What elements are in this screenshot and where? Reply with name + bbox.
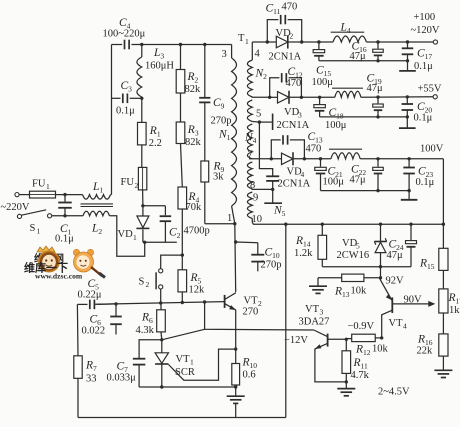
wire: 92V node drop: [380, 267, 382, 278]
svg-text:2~4.5V: 2~4.5V: [378, 387, 410, 398]
resistor R6 4.3k: [136, 303, 166, 340]
svg-text:47μ: 47μ: [367, 83, 384, 94]
node R5 bottom: [181, 301, 184, 304]
node VD2 cathode: [300, 40, 303, 43]
capacitor C2 4700p: [143, 206, 210, 243]
svg-text:270: 270: [243, 307, 259, 318]
resistor R13 10k: [318, 274, 381, 299]
svg-text:S: S: [30, 223, 36, 234]
capacitor C5 0.22u: [77, 278, 116, 309]
svg-text:10k: 10k: [351, 286, 368, 297]
wire FU1 to L1: [56, 194, 83, 196]
svg-text:22k: 22k: [417, 346, 434, 357]
transformer secondary winding column (pins 4,5,7,8,9,10): [247, 42, 259, 223]
wire: bottom return rail: [78, 417, 286, 419]
diode VD2 2CN1A: [267, 28, 301, 63]
wire VT2 emitter down: [235, 310, 237, 364]
node: pin1 junction: [233, 222, 236, 225]
svg-text:82k: 82k: [185, 84, 202, 95]
inductor L3 160uH: [137, 45, 174, 99]
svg-text:VT: VT: [176, 354, 191, 365]
wire SCR cathode to R10 bottom: [162, 386, 236, 388]
switch S2: [139, 255, 183, 303]
svg-text:1: 1: [133, 233, 137, 242]
wire pin8 to junction: [252, 188, 273, 190]
svg-text:1: 1: [227, 213, 232, 224]
svg-text:47μ: 47μ: [387, 250, 404, 261]
wire: main return vertical x=285.8: [285, 224, 287, 417]
node C6: [114, 302, 117, 305]
svg-text:0.1μ: 0.1μ: [55, 234, 74, 245]
svg-text:2CN1A: 2CN1A: [277, 120, 310, 131]
inductor L1: [83, 181, 111, 199]
node VD4 anode: [270, 157, 273, 160]
svg-text:270p: 270p: [261, 260, 282, 271]
svg-text:FU: FU: [32, 179, 46, 190]
capacitor C20 0.1u: [402, 95, 433, 123]
svg-text:2: 2: [135, 181, 139, 190]
capacitor C12 470 bypass loop: [270, 66, 303, 97]
node VD4 cathode: [303, 157, 306, 160]
svg-text:270p: 270p: [211, 116, 232, 127]
transistor VT4: [380, 279, 436, 338]
wire: VT2 base rail: [95, 302, 225, 305]
diode VD1: [118, 206, 150, 243]
capacitor C15 100u: [312, 40, 334, 88]
fuse FU2: [121, 145, 147, 190]
svg-text:90V: 90V: [404, 295, 423, 306]
watermark logo dzsc: [24, 246, 105, 281]
svg-text:2: 2: [290, 32, 294, 41]
transistor VT3 3DA27: [299, 304, 347, 382]
svg-text:4: 4: [255, 49, 261, 60]
capacitor C1 0.1u: [55, 195, 74, 245]
terminal +55V: [418, 84, 442, 99]
wire S1 to L2: [52, 215, 83, 217]
transformer T1 label: [238, 33, 249, 46]
svg-text:1.2k: 1.2k: [294, 248, 313, 259]
svg-text:0.1μ: 0.1μ: [414, 113, 433, 124]
svg-text:VT: VT: [244, 296, 259, 307]
wire: R14/VD5/C24 bottom bus: [322, 266, 411, 268]
svg-text:2CW16: 2CW16: [337, 250, 370, 261]
capacitor C11 470 bypass loop: [266, 2, 302, 43]
wire: R4 bottom to S2/R5 node: [181, 209, 183, 255]
node VT3 base / R11: [345, 338, 348, 341]
wire: C3 branch y=98.3: [112, 97, 121, 99]
svg-text:92V: 92V: [386, 276, 405, 287]
wire L2 to VD1 bottom loop: [110, 216, 145, 256]
transformer primary winding N1 (pins 3-1): [232, 45, 237, 224]
svg-text:+55V: +55V: [418, 84, 442, 95]
capacitor C19 47u: [367, 73, 384, 117]
svg-text:160μH: 160μH: [145, 61, 174, 72]
wire pin7 to VD4 row y=158.8: [249, 158, 282, 160]
svg-text:+100: +100: [414, 12, 436, 23]
node SCR cathode: [160, 385, 163, 388]
wire tap5 down to C14: [259, 122, 272, 176]
diode VD4 2CN1A: [278, 152, 311, 189]
inductor L2: [83, 211, 109, 236]
fuse FU1: [19, 179, 55, 199]
node VT2 base drop: [203, 300, 206, 303]
node: VD1 cathode / C2 bottom: [143, 241, 146, 244]
node tap5: [258, 120, 261, 123]
capacitor C18 100u: [314, 96, 347, 131]
svg-text:4: 4: [403, 322, 407, 331]
wire: AC top rail y=44.5: [112, 44, 123, 46]
svg-text:82k: 82k: [185, 137, 202, 148]
wire: diagonal to SCR anode: [162, 329, 205, 340]
capacitor C7 0.033u: [107, 340, 162, 387]
svg-text:www.dzsc.com: www.dzsc.com: [35, 272, 83, 281]
capacitor C16 47u: [350, 40, 384, 62]
wire: R9 bottom to pin1: [204, 182, 206, 224]
svg-text:47μ: 47μ: [350, 175, 367, 186]
wire VD2 row after L4: [366, 41, 435, 43]
svg-text:10k: 10k: [372, 344, 389, 355]
switch S1: [22, 210, 52, 236]
resistor R5 12k: [178, 255, 205, 302]
wire L1 up: [111, 194, 112, 196]
ground at R13 left: [309, 278, 327, 294]
svg-text:3k: 3k: [213, 172, 224, 183]
svg-text:9: 9: [253, 193, 258, 204]
transistor VT2 270: [225, 293, 262, 318]
wire: secondary pin4 to VD2 row y=42: [252, 41, 267, 43]
svg-text:33: 33: [86, 374, 97, 385]
svg-text:3: 3: [298, 111, 302, 120]
svg-text:SCR: SCR: [175, 367, 195, 378]
svg-text:0.22μ: 0.22μ: [78, 290, 102, 301]
terminal AC top: [15, 193, 19, 197]
resistor R3 82k: [176, 93, 201, 148]
zener diode VD5 2CW16: [337, 223, 387, 267]
capacitor C21 100u: [315, 157, 345, 191]
svg-text:100V: 100V: [420, 144, 444, 155]
resistor R12 10k: [346, 334, 388, 357]
node: L3/C3/R1 junction: [140, 97, 143, 100]
node R15 top: [442, 223, 445, 226]
svg-text:2.2: 2.2: [149, 138, 162, 149]
node C10 tap: [234, 240, 237, 243]
wire: tap to VD3 row y=97: [252, 96, 270, 98]
svg-text:70k: 70k: [186, 202, 203, 213]
svg-text:470: 470: [306, 144, 322, 155]
svg-text:3: 3: [222, 49, 227, 60]
svg-text:0.1μ: 0.1μ: [116, 106, 135, 117]
svg-text:VT: VT: [389, 318, 404, 329]
svg-text:0.1μ: 0.1μ: [416, 177, 435, 188]
svg-text:4700p: 4700p: [184, 226, 210, 237]
svg-text:−12V: −12V: [284, 335, 308, 346]
node VD3 anode: [268, 96, 271, 99]
svg-text:~120V: ~120V: [411, 25, 440, 36]
node + ground stub row3: [376, 189, 417, 200]
node C1 top: [63, 193, 66, 196]
node S2/R5 top: [181, 253, 184, 256]
wire row3 after L6: [360, 158, 443, 160]
capacitor C23 0.1u: [403, 157, 434, 191]
svg-text:12k: 12k: [189, 285, 206, 296]
thyristor VT1 SCR: [155, 340, 236, 387]
node S2 bottom: [159, 301, 162, 304]
stub bar N5: [264, 189, 282, 203]
svg-text:−0.9V: −0.9V: [348, 321, 375, 332]
svg-text:3DA27: 3DA27: [299, 317, 330, 328]
node: VD1 anode top: [142, 190, 144, 206]
node pin8 wire junction: [271, 188, 274, 191]
svg-text:1k: 1k: [449, 305, 460, 316]
svg-text:100μ: 100μ: [312, 77, 334, 88]
node gate tap: [234, 347, 237, 350]
node VD3 cathode: [300, 96, 303, 99]
resistor R11 4.7k: [342, 339, 370, 383]
capacitor C9 270p: [199, 43, 231, 127]
svg-text:T: T: [238, 33, 245, 44]
svg-text:1: 1: [46, 182, 50, 191]
wire: 100V rail right corner down: [442, 159, 444, 249]
svg-text:100μ: 100μ: [323, 177, 345, 188]
capacitor C6 0.022: [82, 304, 122, 337]
ground under R10: [227, 387, 245, 418]
resistor R1 2.2: [138, 98, 162, 149]
svg-text:4.3k: 4.3k: [136, 325, 155, 336]
potentiometer R17 1k: [439, 270, 460, 316]
node VD2 anode: [266, 40, 269, 43]
svg-text:4.7k: 4.7k: [351, 370, 370, 381]
diode VD3 2CN1A: [270, 91, 310, 131]
wire: drop to VT3 drive: [205, 302, 314, 330]
svg-text:~220V: ~220V: [1, 202, 30, 213]
resistor R9 3k: [201, 102, 225, 182]
svg-text:470: 470: [286, 78, 302, 89]
node + ground stub row1: [376, 59, 416, 71]
capacitor C13 470 bypass loop: [271, 131, 323, 159]
svg-text:2CN1A: 2CN1A: [278, 179, 311, 190]
capacitor C22 47u: [350, 157, 384, 191]
resistor R7 33: [74, 304, 97, 417]
resistor R16 22k: [417, 313, 449, 357]
svg-text:100~220μ: 100~220μ: [103, 29, 146, 40]
svg-text:VD: VD: [118, 229, 134, 240]
svg-text:0.6: 0.6: [243, 370, 256, 381]
svg-text:0.1μ: 0.1μ: [414, 61, 433, 72]
svg-text:FU: FU: [121, 177, 135, 188]
terminal AC bottom: [17, 214, 21, 218]
return rail row3: [321, 190, 410, 192]
wire row2 after L5: [361, 96, 435, 99]
capacitor C4 100~220u: [103, 17, 146, 49]
svg-text:100μ: 100μ: [325, 120, 347, 131]
capacitor C17 0.1u: [402, 40, 433, 72]
svg-text:S: S: [139, 277, 145, 288]
resistor R15: [419, 248, 448, 271]
svg-text:470: 470: [282, 2, 298, 13]
capacitor C3 0.1u: [116, 80, 135, 117]
return rail row2: [320, 116, 408, 118]
svg-text:1: 1: [37, 227, 41, 236]
wire pin1 down to VT2 collector: [234, 224, 237, 293]
return rail row1: [319, 60, 408, 62]
filter core bars: [81, 204, 114, 207]
svg-text:2CN1A: 2CN1A: [269, 52, 302, 63]
node pin10 drop: [284, 223, 287, 226]
capacitor C10 270p: [236, 242, 282, 271]
svg-text:2: 2: [258, 299, 262, 308]
svg-text:3: 3: [320, 308, 324, 317]
svg-text:0.022: 0.022: [82, 326, 106, 337]
svg-text:5: 5: [256, 109, 261, 120]
stub capacitor plate at tap5: [259, 114, 272, 131]
wire: left vertical from C4 down to L1: [111, 45, 113, 195]
wire pin10: [252, 223, 443, 225]
svg-text:VT: VT: [305, 304, 320, 315]
resistor R2 82k: [176, 43, 201, 95]
inductor L6: [329, 149, 362, 159]
capacitor C24 47u: [387, 223, 417, 267]
inductor L5: [332, 88, 363, 97]
ground at VT3 emitter/R11: [337, 382, 355, 396]
svg-text:2: 2: [146, 280, 150, 289]
capacitor C14 (8-9 snubber): [266, 176, 279, 189]
svg-text:0.033μ: 0.033μ: [107, 373, 137, 384]
node C1 bottom: [63, 214, 66, 217]
ground under R16: [434, 356, 452, 377]
svg-text:1: 1: [190, 358, 194, 367]
inductor L4: [319, 22, 367, 43]
resistor R14 1.2k: [294, 223, 327, 267]
node + ground stub row2: [376, 115, 415, 128]
svg-text:1: 1: [245, 37, 249, 46]
resistor R10 0.6: [232, 357, 257, 389]
resistor R4 70k: [178, 144, 202, 214]
terminal +100~120V: [411, 12, 440, 44]
node SCR anode: [160, 338, 163, 341]
